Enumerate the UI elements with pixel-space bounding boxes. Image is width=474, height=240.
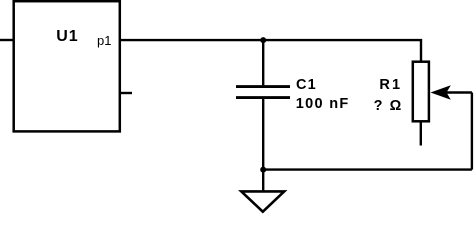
resistor R1 body (potentiometer) bbox=[413, 62, 429, 122]
IC U1 body bbox=[14, 1, 120, 131]
svg-text:? Ω: ? Ω bbox=[374, 98, 403, 114]
wire: C1 bottom to ground junction bbox=[262, 99, 264, 191]
svg-text:U1: U1 bbox=[56, 28, 78, 45]
wire: lower right pin stub of U1 bbox=[120, 92, 132, 94]
svg-text:R1: R1 bbox=[379, 77, 402, 93]
wire: pin p1 to R1 top bbox=[120, 40, 421, 62]
ground bbox=[241, 191, 284, 211]
svg-text:C1: C1 bbox=[296, 77, 317, 93]
svg-text:p1: p1 bbox=[97, 33, 111, 48]
capacitor C1 plates bbox=[236, 87, 290, 98]
svg-text:100 nF: 100 nF bbox=[296, 96, 350, 112]
wiper arrowhead bbox=[431, 85, 451, 99]
node: junction dot top bbox=[260, 37, 266, 43]
wire: left pin stub of U1 bbox=[0, 39, 14, 41]
wire: junction down to C1 bbox=[262, 40, 264, 85]
R1 bottom lead (unconnected) bbox=[420, 122, 422, 146]
wire: wiper to bottom rail bbox=[471, 93, 473, 170]
node: junction dot bottom bbox=[260, 167, 266, 173]
wiper arrow tail bbox=[446, 91, 472, 93]
wire: bottom rail bbox=[263, 168, 472, 170]
